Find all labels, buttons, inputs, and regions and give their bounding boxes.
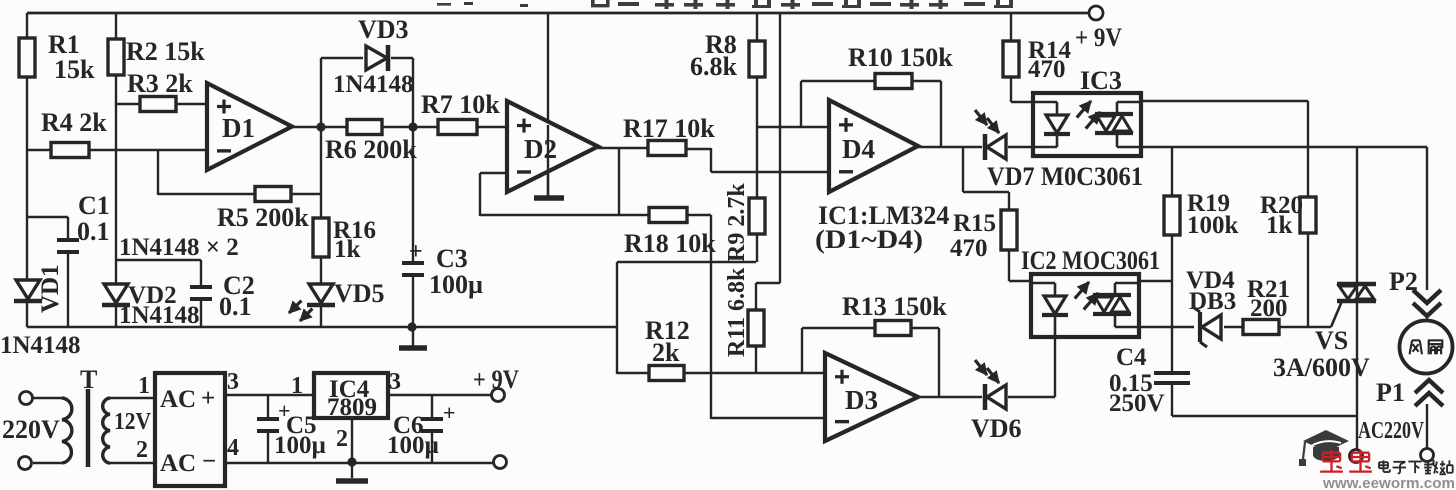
svg-text:DB3: DB3 bbox=[1189, 288, 1236, 315]
svg-text:0.1: 0.1 bbox=[219, 292, 252, 321]
svg-text:R13 150k: R13 150k bbox=[842, 292, 947, 321]
svg-text:100µ: 100µ bbox=[429, 270, 483, 299]
svg-text:C4: C4 bbox=[1116, 344, 1147, 371]
svg-text:470: 470 bbox=[950, 235, 988, 262]
svg-text:R10 150k: R10 150k bbox=[848, 43, 953, 72]
svg-text:D4: D4 bbox=[842, 134, 875, 164]
svg-text:D2: D2 bbox=[524, 134, 557, 164]
svg-text:100µ: 100µ bbox=[274, 432, 326, 459]
svg-text:P1: P1 bbox=[1376, 378, 1405, 407]
svg-text:VD6: VD6 bbox=[971, 414, 1022, 443]
svg-text:470: 470 bbox=[1028, 56, 1066, 83]
svg-text:(D1~D4): (D1~D4) bbox=[815, 225, 923, 254]
svg-text:15k: 15k bbox=[54, 55, 95, 84]
svg-text:VD3: VD3 bbox=[358, 15, 409, 44]
svg-text:250V: 250V bbox=[1109, 390, 1165, 417]
svg-text:1k: 1k bbox=[1266, 212, 1293, 239]
svg-text:2: 2 bbox=[136, 437, 148, 463]
svg-text:IC2 MOC3061: IC2 MOC3061 bbox=[1021, 246, 1160, 275]
svg-text:VD1: VD1 bbox=[37, 264, 64, 313]
svg-text:+: + bbox=[409, 239, 423, 265]
svg-text:C1: C1 bbox=[78, 191, 110, 220]
svg-text:200: 200 bbox=[1250, 295, 1288, 322]
svg-text:R5 200k: R5 200k bbox=[217, 203, 309, 232]
svg-text:12V: 12V bbox=[114, 409, 152, 435]
svg-text:+: + bbox=[201, 385, 215, 412]
svg-text:100µ: 100µ bbox=[387, 432, 439, 459]
svg-text:VD5: VD5 bbox=[334, 279, 385, 308]
svg-text:−: − bbox=[202, 448, 216, 475]
svg-text:4: 4 bbox=[227, 435, 239, 461]
svg-text:VD7 M0C3061: VD7 M0C3061 bbox=[987, 162, 1143, 191]
svg-text:R9 2.7k: R9 2.7k bbox=[724, 183, 750, 262]
svg-text:R6 200k: R6 200k bbox=[325, 135, 417, 164]
svg-text:1: 1 bbox=[291, 373, 303, 399]
svg-text:1N4148 × 2: 1N4148 × 2 bbox=[119, 234, 239, 261]
svg-text:100k: 100k bbox=[1187, 212, 1239, 239]
svg-text:2: 2 bbox=[336, 426, 348, 452]
svg-text:AC: AC bbox=[160, 386, 196, 413]
svg-text:D3: D3 bbox=[845, 385, 878, 415]
svg-text:3A/600V: 3A/600V bbox=[1273, 353, 1370, 382]
svg-text:1N4148: 1N4148 bbox=[119, 302, 200, 329]
svg-text:3: 3 bbox=[227, 369, 239, 395]
svg-text:D1: D1 bbox=[222, 113, 255, 143]
svg-text:VS: VS bbox=[1315, 326, 1348, 355]
svg-text:7809: 7809 bbox=[327, 394, 377, 421]
svg-text:R7 10k: R7 10k bbox=[421, 90, 500, 119]
svg-text:2k: 2k bbox=[652, 338, 680, 367]
svg-text:AC220V: AC220V bbox=[1358, 418, 1424, 444]
svg-text:0.1: 0.1 bbox=[77, 217, 110, 246]
svg-text:+: + bbox=[443, 400, 456, 425]
svg-text:C3: C3 bbox=[436, 244, 468, 273]
svg-text:R2 15k: R2 15k bbox=[126, 37, 205, 66]
svg-text:1: 1 bbox=[138, 373, 150, 399]
svg-text:R11 6.8k: R11 6.8k bbox=[724, 267, 750, 357]
svg-text:IC3: IC3 bbox=[1080, 66, 1122, 95]
svg-text:1N4148: 1N4148 bbox=[0, 332, 81, 359]
svg-text:220V: 220V bbox=[2, 415, 60, 444]
svg-text:+ 9V: + 9V bbox=[1075, 23, 1122, 52]
svg-text:P2: P2 bbox=[1389, 267, 1418, 296]
svg-text:R18 10k: R18 10k bbox=[624, 229, 716, 258]
svg-text:1k: 1k bbox=[334, 236, 361, 263]
svg-text:R3 2k: R3 2k bbox=[127, 69, 193, 98]
svg-text:+ 9V: + 9V bbox=[473, 365, 519, 394]
svg-text:T: T bbox=[80, 365, 97, 394]
svg-text:3: 3 bbox=[389, 369, 401, 395]
svg-text:R17 10k: R17 10k bbox=[623, 114, 715, 143]
svg-text:R4 2k: R4 2k bbox=[41, 108, 107, 137]
svg-text:www.eeworm.com: www.eeworm.com bbox=[1322, 475, 1455, 490]
svg-text:6.8k: 6.8k bbox=[690, 52, 738, 81]
svg-text:R15: R15 bbox=[953, 210, 996, 237]
svg-text:AC: AC bbox=[160, 450, 196, 477]
svg-text:1N4148: 1N4148 bbox=[333, 71, 414, 98]
